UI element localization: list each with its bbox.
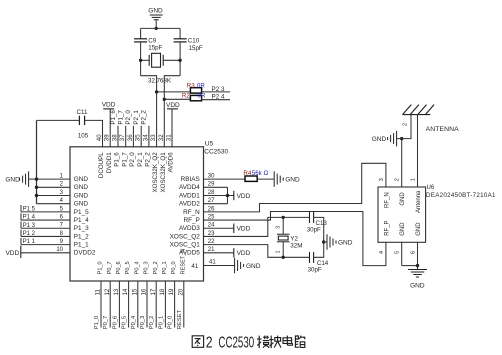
power VDD (DVDD2) [5,246,20,258]
pin number 33 [150,134,157,141]
pin number 15 [131,288,138,295]
pin number 21 [208,247,215,253]
pin name P0_3 (inside U5) [144,261,150,274]
svg-text:R3: R3 [187,83,195,90]
node R2 tap [163,98,166,101]
wire pin 7 [21,227,70,229]
pin number 20 [177,288,184,295]
pin name AVDD2 (inside U5) [179,201,200,208]
node crystal left terminal [139,59,142,62]
svg-text:56k Ω: 56k Ω [252,170,269,177]
wire pin 19 stub [174,281,176,328]
svg-text:R2: R2 [182,93,190,100]
wire junction to GND [324,241,327,243]
wire pin33 to R3 [157,91,191,93]
svg-text:1: 1 [410,178,416,181]
svg-text:GND: GND [148,8,163,15]
svg-text:13: 13 [113,288,120,295]
wire pin 9 [21,244,70,246]
wire pin 13 stub [118,281,120,328]
ground GND (pin 41) [235,258,261,274]
pin number 2 [60,182,64,188]
pin number 4 [60,198,64,204]
pin number 23 [208,231,215,237]
node crystal-rail/GND junction [155,27,158,30]
pin name P1_6 (inside U5) [114,152,121,167]
svg-text:39: 39 [104,134,111,141]
svg-text:P2_2: P2_2 [145,152,152,167]
svg-text:P2 4: P2 4 [212,93,225,100]
pin name AVDD4 (inside U5) [179,184,200,191]
wire pin 4 (GND) [37,203,71,205]
svg-text:GND: GND [416,222,422,236]
wire pin 12 stub [109,281,111,328]
svg-text:2: 2 [395,178,401,181]
wire pin 16 stub [146,281,148,328]
svg-text:GND: GND [410,283,425,290]
svg-text:36: 36 [127,134,134,141]
svg-text:GND: GND [400,222,406,236]
svg-text:5: 5 [395,251,401,254]
svg-text:DVDD1: DVDD1 [106,152,113,174]
pin name GND (inside U5) [74,192,89,199]
pin name P2_2 (inside U5) [145,152,152,167]
label C14 [317,260,329,267]
pin name RF_P (inside U6) [384,220,390,235]
pin name DCOUPL (inside U5) [98,152,105,178]
svg-text:15pF: 15pF [189,45,203,52]
svg-text:P0_7: P0_7 [103,316,109,330]
svg-text:P0_6: P0_6 [112,316,118,330]
wire pin29 stub [204,186,228,188]
node net label P1 5 [21,205,36,212]
pin name P1_7 (inside U5) [121,152,128,167]
power VDD (AVDD6) [166,102,180,109]
svg-text:DEA202450BT-7210A1: DEA202450BT-7210A1 [426,192,496,199]
wire pin 34 stub [148,126,150,147]
pin number 17 [150,288,157,295]
label R2 [182,93,190,100]
wire right branch upper [179,28,181,38]
svg-text:P0_3: P0_3 [144,261,150,274]
pin name P0_5 (inside U5) [125,261,131,274]
svg-text:P1_0: P1_0 [94,316,100,330]
svg-text:P2_2: P2_2 [141,110,148,125]
svg-text:P1_7: P1_7 [121,152,128,167]
label 32.768K [148,78,172,85]
svg-text:16: 16 [141,288,148,295]
node net label P2_0 (top) [125,110,132,125]
svg-text:RF_N: RF_N [384,192,390,208]
svg-text:2: 2 [206,334,213,351]
svg-text:P0_0: P0_0 [168,316,174,330]
pin number 5 (U6) [395,251,401,254]
pin number 7 [60,223,64,229]
capacitor C9 [134,39,147,42]
label Y2 value 32M [290,242,302,249]
svg-text:P0_1: P0_1 [158,316,164,330]
crystal Y1 32.768K [141,53,181,67]
svg-text:P1 3: P1 3 [23,223,36,229]
label CC2530 [204,149,228,156]
capacitor C14 [310,252,314,263]
svg-text:P1_1: P1_1 [74,242,89,249]
pin name RF_N (inside U6) [384,192,390,208]
label ANTENNA [426,126,460,133]
label C14 value 30pF [308,267,322,274]
pin name DVDD2 (inside U5) [74,250,96,257]
pin name AVDD6 (inside U5) [168,152,175,173]
svg-text:P1_5: P1_5 [74,209,89,216]
svg-text:RESET: RESET [177,310,183,330]
node net label RESET (bottom) [177,310,183,330]
pin number 32 [158,134,165,141]
ground GND (U6 pin2) [372,131,397,147]
crystal Y2 32M [277,234,290,242]
pin name P1_2 (inside U5) [74,233,89,240]
svg-text:VDD: VDD [237,226,251,233]
wire C14 to GND corner [314,242,324,257]
node net label P1 4 [21,213,36,220]
pin number 4 (U6) [379,251,385,254]
svg-text:1: 1 [275,250,281,253]
pin number 11 [95,289,102,296]
svg-text:P1_6: P1_6 [110,110,117,125]
svg-text:6: 6 [410,251,416,254]
node net label P1_7 (top) [118,110,125,125]
svg-text:RF_P: RF_P [384,220,390,235]
svg-text:41: 41 [209,259,216,265]
svg-text:GND: GND [74,192,89,199]
node net label P0_6 (bottom) [112,316,118,330]
wire pin 5 [21,211,70,213]
pin name P2_1 (inside U5) [137,152,144,167]
svg-text:12: 12 [104,288,111,295]
svg-text:Y2: Y2 [290,235,298,242]
node net label P0_1 (bottom) [158,316,164,330]
svg-text:0R: 0R [197,93,205,100]
svg-text:P0_7: P0_7 [107,261,113,274]
wire R3 to net P2_3 [202,91,230,93]
wire pin21 to VDD [204,252,234,254]
pin name P0_4 (inside U5) [134,261,140,274]
pin number 12 [104,288,111,295]
svg-text:32: 32 [158,134,165,141]
pin number 2 (antenna jog) [402,123,408,126]
capacitor C13 [310,212,314,223]
svg-text:ANTENNA: ANTENNA [426,126,460,133]
node net label P0_7 (bottom) [103,316,109,330]
node U6 pin2 junction [400,137,403,140]
svg-text:RF_P: RF_P [183,217,199,224]
pin number 37 [119,134,126,141]
node net label P2_2 (top) [141,110,148,125]
node R3 tap [155,90,158,93]
pin number 5 [60,206,64,212]
label C10 [188,37,200,44]
svg-text:30pF: 30pF [307,227,321,234]
svg-text:P0_6: P0_6 [116,261,122,274]
pin number 39 [104,134,111,141]
svg-text:GND: GND [74,176,89,183]
svg-text:VDD: VDD [102,102,116,109]
pin number 19 [168,288,175,295]
pin name XOSC32K_Q1 (inside U5) [160,152,167,193]
pin number 3 (U6) [379,178,385,181]
pin name AVDD3 (inside U5) [179,225,200,232]
wire RF_P [204,212,386,266]
pin name P1_4 (inside U5) [74,217,89,224]
svg-text:AVDD2: AVDD2 [179,201,200,208]
power VDD (DVDD1) [102,102,116,109]
node net label P0_3 (bottom) [140,316,146,330]
pin name RF_N (inside U5) [183,209,200,216]
wire left branch upper [140,28,142,38]
pin name AVDD1 (inside U5) [179,192,200,199]
svg-text:RBIAS: RBIAS [181,176,200,183]
svg-text:32.768K: 32.768K [148,78,172,85]
wire pin 15 stub [137,281,139,328]
svg-text:32M: 32M [290,242,302,249]
svg-text:GND: GND [372,136,387,143]
wire XOSC_Q1 [204,245,310,258]
wire pin30 to R4 [204,178,246,180]
node net label P0_0 (bottom) [168,316,174,330]
svg-text:GND: GND [74,184,89,191]
ground GND (32.768K crystal top) [148,8,163,20]
svg-text:P1_4: P1_4 [74,217,89,224]
svg-text:P0_1: P0_1 [162,261,168,274]
svg-text:GND: GND [74,201,89,208]
pin name RESET_N (inside U5) [180,249,186,275]
transistor U6 body [378,187,426,242]
node net label P1_6 (top) [110,110,117,125]
pin name GND bottom-right (inside U6) [416,222,422,236]
ground GND (RBIAS) [274,171,300,187]
capacitor C11 [79,116,84,125]
svg-text:P0_2: P0_2 [153,261,159,274]
wire pin41 to GND [204,265,235,267]
pin number 13 [113,288,120,295]
label Y2 [290,235,298,242]
node net label P1_0 (bottom) [94,316,100,330]
wire pin28 to VDD [204,194,234,196]
resistor R3 [190,88,201,93]
wire crystal left to pin33 [141,76,157,147]
pin name XOSC32K_Q2 (inside U5) [152,152,159,193]
svg-text:105: 105 [78,132,89,139]
svg-text:P2_0: P2_0 [129,152,136,167]
svg-text:XOSC_Q1: XOSC_Q1 [170,242,201,249]
svg-text:XOSC_Q2: XOSC_Q2 [170,233,201,240]
svg-text:R4: R4 [243,170,251,177]
label C11 [77,109,88,116]
wire GND to crystal rail [155,20,157,29]
svg-text:15: 15 [131,288,138,295]
svg-text:P0_0: P0_0 [171,261,177,274]
pin number 35 [135,134,142,141]
resistor R4 [245,176,257,181]
wire right branch lower [179,42,181,76]
wire Y2 top stub [282,217,284,234]
svg-text:GND: GND [338,239,353,246]
pin name XOSC_Q2 (inside U5) [170,233,201,240]
pin name P0_6 (inside U5) [116,261,122,274]
wire pin 36 stub [132,126,134,147]
svg-text:11: 11 [95,289,102,296]
svg-text:P0_5: P0_5 [122,316,128,330]
wire to bottom GND [417,266,419,270]
svg-text:0R: 0R [197,83,205,90]
svg-text:XOSC32K_Q1: XOSC32K_Q1 [160,152,167,193]
svg-text:P1 4: P1 4 [23,215,36,221]
svg-text:P1_7: P1_7 [118,110,125,125]
wire GND to bus [29,178,37,180]
pin number 1 (Y2) [275,250,281,253]
svg-text:20: 20 [177,288,184,295]
label U6 value DEA202450BT-7210A1 [426,192,496,199]
label C11 value 105 [78,132,89,139]
label C13 [316,220,328,227]
wire pin24 to VDD [204,227,234,229]
wire pin 2 (GND) [37,186,71,188]
label R4 [243,170,251,177]
svg-text:38: 38 [112,134,119,141]
node AVDD junction [226,194,229,197]
capacitor C10 [174,39,187,42]
svg-text:3: 3 [275,226,281,229]
svg-text:AVDD1: AVDD1 [179,192,200,199]
power VDD (AVDD1) [234,191,251,200]
pin number 3 (Y2) [275,226,281,229]
pin number 38 [112,134,119,141]
svg-text:CC2530: CC2530 [204,149,228,156]
node bus junction pin2 [35,186,38,189]
ground GND (U5 pins 1-4) [5,171,28,187]
label C10 value 15pF [189,45,203,52]
pin name GND (inside U5) [74,184,89,191]
pin number 6 (U6) [410,251,416,254]
node net label P2_1 (top) [133,110,140,125]
pin number 31 [166,134,173,141]
power VDD (AVDD5) [234,248,251,257]
svg-text:VDD: VDD [237,250,251,257]
label R2 value 0R [197,93,205,100]
svg-text:GND: GND [400,192,406,206]
svg-text:P1_3: P1_3 [74,225,89,232]
node crystal right terminal [178,59,181,62]
pin number 41 (inside U5) [191,263,198,270]
wire pin 3 (GND) [37,194,71,196]
svg-text:P0_4: P0_4 [131,315,137,329]
svg-text:30pF: 30pF [308,267,322,274]
wire antenna jog [402,115,411,139]
pin number 40 [96,134,103,141]
wire VDD to pin31 [171,109,173,147]
svg-text:40: 40 [96,134,103,141]
label C9 value 15pF [148,45,162,52]
pin name GND (inside U5) [74,201,89,208]
label R3 [187,83,195,90]
pin name GND bottom-mid (inside U6) [400,222,406,236]
pin name GND (inside U5) [74,176,89,183]
wire U6 pin6 down [417,242,419,265]
pin name P1_3 (inside U5) [74,225,89,232]
ground GND (XOSC caps) [327,234,353,250]
node net label P0_2 (bottom) [149,316,155,330]
pin number 1 (U6) [410,178,416,181]
svg-text:P1_2: P1_2 [74,233,89,240]
wire pin27 stub [204,203,228,205]
svg-text:17: 17 [150,288,157,295]
svg-text:RF_N: RF_N [183,209,200,216]
node net label P1 1 [21,238,36,245]
node Y2 bottom junction [282,256,285,259]
svg-text:15pF: 15pF [148,45,162,52]
svg-text:GND: GND [285,177,300,184]
pin number 34 [142,134,149,141]
resistor R2 [190,95,201,100]
svg-text:C9: C9 [148,37,156,44]
wire pin 11 stub [100,281,102,328]
node net label P0_5 (bottom) [122,316,128,330]
wire crystal top rail [141,27,181,29]
svg-text:P0_4: P0_4 [134,261,140,274]
pin name P1_1 (inside U5) [74,242,89,249]
svg-text:AVDD4: AVDD4 [179,184,200,191]
pin name P1_0 (inside U5) [98,261,104,274]
pin name P0_0 (inside U5) [171,261,177,274]
svg-text:P2_0: P2_0 [125,110,132,125]
svg-text:3: 3 [379,178,385,181]
wire XOSC_Q2 [204,217,310,236]
pin number 22 [208,239,215,245]
label C13 value 30pF [307,227,321,234]
wire AVDD bus [227,187,229,203]
wire pin 38 stub [117,126,119,147]
wire C11 left segment [37,119,80,121]
pin number 28 [208,190,215,196]
pin number 8 [60,231,64,237]
wire U6 pin1 to antenna [417,115,419,187]
pin number 3 [60,190,64,196]
node bus junction pin1 [35,177,38,180]
svg-text:VDD: VDD [237,193,251,200]
svg-text:Antenna: Antenna [416,190,422,213]
wire pin 10 [21,252,70,254]
power VDD (AVDD3) [234,224,251,233]
pin name Antenna (inside U6) [416,190,422,213]
wire pin 18 stub [164,281,166,328]
svg-text:P2_1: P2_1 [133,110,140,125]
pin number 25 [208,214,215,220]
wire VDD to pin39 [109,109,111,147]
svg-text:19: 19 [168,288,175,295]
wire pin 20 stub [183,281,185,328]
wire pin 8 [21,235,70,237]
pin name GND top (inside U6) [400,192,406,206]
wire U6 pin5 down [401,242,403,265]
pin number 27 [208,198,215,204]
node net label P2_4 [212,93,225,100]
wire pin5 to pin6 [402,265,418,267]
pin number 14 [122,288,129,295]
svg-text:4: 4 [379,251,385,254]
svg-text:P0_2: P0_2 [149,316,155,330]
wire C11 to pin40 [85,120,103,146]
svg-text:P2 3: P2 3 [212,86,225,93]
pin name DVDD1 (inside U5) [106,152,113,174]
